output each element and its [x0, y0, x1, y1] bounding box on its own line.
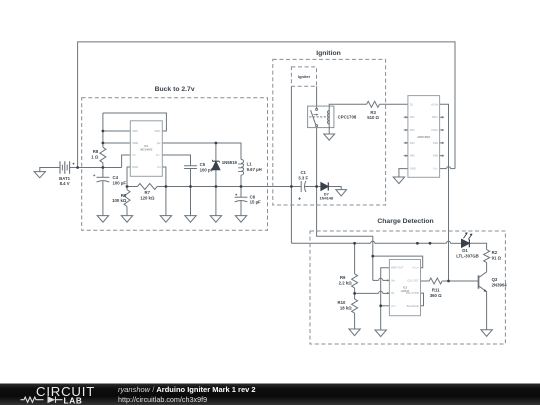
svg-text:18 kΩ: 18 kΩ	[340, 306, 352, 311]
svg-text:Pd2: Pd2	[410, 115, 415, 119]
svg-text:Pd5: Pd5	[410, 154, 415, 158]
svg-text:+: +	[298, 197, 301, 203]
svg-text:COL OUT: COL OUT	[407, 278, 419, 282]
svg-text:8.4 V: 8.4 V	[60, 181, 70, 186]
svg-text:Charge Detection: Charge Detection	[377, 218, 433, 225]
svg-text:2.2 kΩ: 2.2 kΩ	[339, 280, 353, 285]
svg-text:R11: R11	[432, 288, 440, 293]
svg-text:9.67 µH: 9.67 µH	[247, 167, 262, 172]
svg-text:CII: CII	[157, 165, 161, 169]
svg-text:15 µF: 15 µF	[250, 200, 261, 205]
svg-text:DRC: DRC	[155, 129, 161, 133]
svg-text:+: +	[72, 161, 75, 166]
svg-text:+: +	[235, 193, 238, 198]
svg-text:R10: R10	[338, 300, 346, 305]
svg-text:100 kΩ: 100 kΩ	[112, 198, 127, 203]
svg-text:EMIT OUT: EMIT OUT	[391, 266, 404, 270]
svg-text:91 Ω: 91 Ω	[492, 255, 502, 260]
svg-text:LAB: LAB	[64, 396, 83, 405]
svg-text:IN-: IN-	[391, 291, 395, 295]
svg-text:Pd11: Pd11	[432, 115, 439, 119]
svg-text:SWE: SWE	[132, 141, 138, 145]
svg-text:2N3904: 2N3904	[492, 282, 508, 287]
svg-text:510 Ω: 510 Ω	[367, 115, 379, 120]
svg-text:Igniter: Igniter	[298, 74, 311, 79]
svg-text:Pd4: Pd4	[410, 141, 415, 145]
svg-text:GND: GND	[410, 167, 416, 171]
svg-text:1N5819: 1N5819	[222, 160, 238, 165]
svg-text:http://circuitlab.com/ch3x9f9: http://circuitlab.com/ch3x9f9	[118, 395, 207, 404]
svg-text:Buck to 2.7v: Buck to 2.7v	[155, 86, 195, 93]
svg-text:+: +	[93, 173, 96, 178]
svg-text:Ignition: Ignition	[316, 50, 341, 57]
svg-text:120 kΩ: 120 kΩ	[140, 195, 155, 200]
svg-text:BAL/STRB: BAL/STRB	[406, 291, 419, 295]
svg-text:ARDUINO: ARDUINO	[417, 135, 431, 139]
svg-text:1 Ω: 1 Ω	[91, 154, 99, 159]
svg-text:LTL-307GB: LTL-307GB	[456, 253, 479, 258]
svg-text:100 µF: 100 µF	[113, 180, 127, 185]
svg-text:IN+: IN+	[391, 278, 396, 282]
svg-text:TC: TC	[132, 153, 136, 157]
svg-text:R9: R9	[340, 275, 346, 280]
svg-text:Q3: Q3	[492, 277, 498, 282]
svg-text:A0 IN: A0 IN	[431, 102, 438, 106]
svg-text:ryanshow / Arduino Igniter Mar: ryanshow / Arduino Igniter Mark 1 rev 2	[118, 385, 256, 394]
svg-text:D1: D1	[410, 102, 414, 106]
svg-text:Pd10: Pd10	[432, 128, 439, 132]
svg-text:MC34063: MC34063	[140, 148, 153, 152]
svg-text:CPC1708: CPC1708	[338, 115, 357, 120]
svg-text:BALANCE: BALANCE	[407, 304, 419, 308]
svg-text:GND: GND	[132, 165, 138, 169]
svg-text:Pd9: Pd9	[433, 141, 438, 145]
svg-text:3.3 F: 3.3 F	[298, 175, 308, 180]
svg-text:360 Ω: 360 Ω	[430, 293, 442, 298]
svg-text:R2: R2	[492, 250, 498, 255]
svg-text:SWC: SWC	[132, 129, 138, 133]
svg-text:Pd3: Pd3	[410, 128, 415, 132]
svg-text:1N4148: 1N4148	[319, 196, 333, 201]
svg-text:Pd8: Pd8	[433, 154, 438, 158]
svg-text:100 pF: 100 pF	[200, 167, 214, 172]
